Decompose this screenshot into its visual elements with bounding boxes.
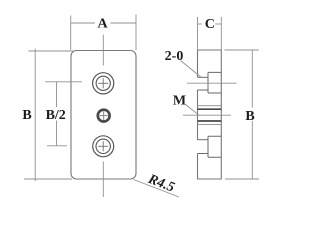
hole H1 section: through hole lines (side view) [198, 76, 209, 78]
svg-text:B: B [22, 108, 31, 123]
dimension B (right vertical dimension line) [251, 50, 253, 179]
wire: vertical center line below bottom hole [102, 162, 104, 198]
wire: bottom edge extension line (left of plate, y=179) [24, 178, 72, 180]
dimension C (top horizontal over side view) [198, 23, 202, 25]
wire: top hole horizontal center line (side view) [187, 82, 237, 84]
hole H3 section: counterbore (side view) [208, 136, 221, 157]
hole H3 bottom counterbored hole (front view) [93, 136, 114, 157]
svg-text:C: C [205, 17, 215, 32]
dimension B/2 (inner vertical dimension line) [56, 82, 58, 146]
label B/2 [45, 107, 67, 121]
hole H3 section: through hole lines (side view) [198, 139, 209, 141]
hole H1 top counterbored hole (front view) [93, 73, 114, 94]
hole H2 middle tapped hole (front view) [98, 110, 110, 122]
dimension A (top horizontal dimension line) [71, 22, 96, 24]
hole H2 section: tapped hole thread lines (side view) [198, 105, 222, 107]
wire: right B bottom extension line [225, 178, 259, 180]
svg-text:B: B [245, 109, 254, 124]
wire: bottom hole center extension tick (y=146) [47, 145, 67, 147]
wire: top edge extension line (left of plate, y=51) [28, 50, 73, 52]
dimension B (left vertical dimension line) [34, 49, 36, 182]
side view outline (left edge interrupted at hole openings) [198, 50, 222, 179]
wire: right B top extension line [224, 49, 259, 51]
wire: vertical center line above top hole [102, 35, 104, 66]
wire: top hole center extension line (y=82) [45, 81, 82, 83]
hole H1 section: counterbore (side view) [208, 72, 221, 93]
label B (right) [246, 108, 256, 122]
leader R4.5 (corner radius callout) [134, 180, 180, 198]
front view plate outline [71, 51, 136, 180]
svg-text:M: M [173, 93, 186, 108]
wire: C right extension line [220, 17, 222, 50]
leader 2-0 [181, 61, 203, 79]
wire: A left extension line [70, 16, 72, 51]
svg-text:B/2: B/2 [46, 108, 66, 123]
leader M [186, 105, 200, 116]
wire: A right extension line [135, 15, 137, 51]
svg-text:A: A [97, 17, 108, 32]
svg-text:2-0: 2-0 [165, 49, 184, 64]
wire: C left extension line [197, 17, 199, 50]
wire: middle hole horizontal center line (side view) [183, 114, 231, 116]
